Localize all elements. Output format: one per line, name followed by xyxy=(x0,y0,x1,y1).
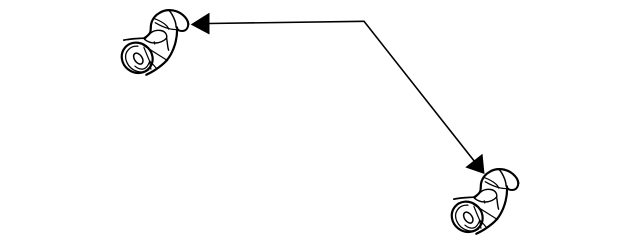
clip part 2 (bottom-right) xyxy=(446,169,519,238)
arrowhead left xyxy=(191,13,210,35)
arrowhead lower-right xyxy=(465,154,484,174)
clip part 1 (top-left) xyxy=(116,10,189,79)
leader line horizontal segment xyxy=(210,21,365,23)
leader line diagonal segment xyxy=(364,21,474,161)
